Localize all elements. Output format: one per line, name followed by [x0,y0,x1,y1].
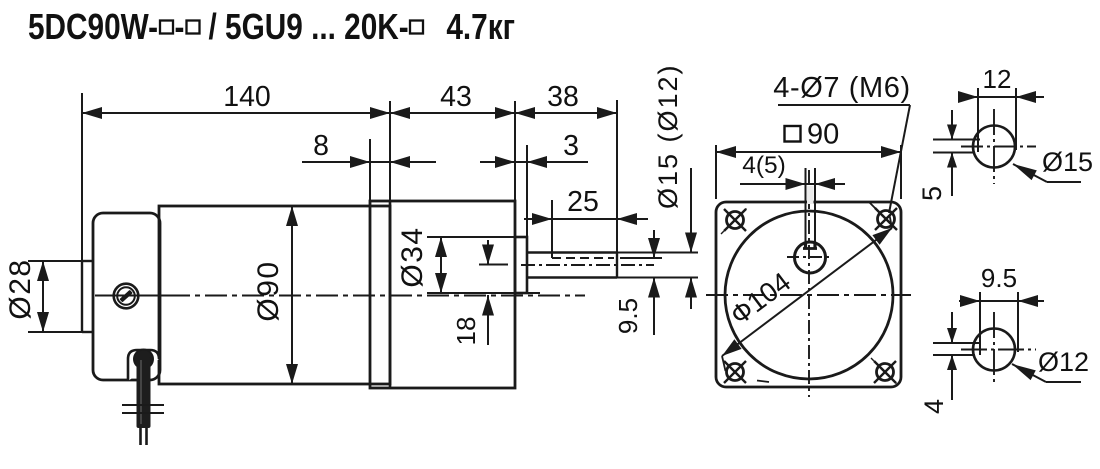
detail2 key width lines [979,292,981,355]
svg-text:12: 12 [983,64,1012,94]
gearbox housing [370,201,515,388]
output shaft [527,251,617,253]
keyway hidden line [552,257,614,259]
leader 4-dia7 [778,104,910,106]
dimension dia90 [291,206,293,384]
extension line x515 [514,101,516,202]
corner hole top-right [878,211,895,228]
dimension 9.5 keyflat [620,257,662,259]
detail1 dimension 5 [951,110,953,140]
dimension dia28 [28,260,93,262]
dimension 3 [480,161,588,163]
extension line x370 for 8 [369,139,371,201]
shaft bore centerline [787,256,832,258]
motor centerline [95,295,168,297]
svg-text:Ø28: Ø28 [4,258,37,319]
svg-text:5: 5 [917,186,947,201]
cable gland [128,350,159,381]
detail1 horizontal centerline [961,146,1036,148]
svg-text:43: 43 [440,81,472,113]
dimension square 90 [715,145,717,199]
detail1 flat lines [933,139,980,141]
cable entry boss [134,350,153,369]
title text 5DC90W [28,7,409,48]
cable wire prongs [139,428,142,445]
detail2 shaft circle dia12 [973,329,1015,371]
dimension 8 [302,161,436,163]
extension line x617 [616,100,618,252]
corner hole bottom-left [727,364,744,381]
gearbox circle [725,211,893,379]
front boss [515,237,527,293]
detail2 vertical centerline [993,312,995,385]
output shaft bore [795,242,826,273]
dimension dia34 [427,236,516,238]
detail1 shaft circle dia15 [973,126,1015,168]
output shaft centerline [521,264,654,266]
extension line x552 for 25 [551,200,553,258]
dimension 4(5) keyway [740,183,845,185]
dimension 25 [524,218,648,220]
detail2 flat lines [933,342,980,344]
svg-text:3: 3 [563,130,579,162]
extension line x527 for 3 [526,145,528,237]
extension line x390 [389,101,391,200]
motor gearbox joint line [389,201,392,388]
cable break lines [122,404,164,406]
rear shaft stub [81,261,83,332]
keyway slot lines [805,168,807,249]
svg-text:25: 25 [567,186,599,218]
front view vertical centerline [808,170,810,397]
rear end cap [93,213,160,380]
svg-text:Ø15 (Ø12): Ø15 (Ø12) [653,63,683,209]
detail2 label dia12 [1046,381,1081,383]
svg-text:5DC90W-: 5DC90W- [28,7,158,48]
detail2 dimension 4 [951,312,953,343]
detail2 dimension 9.5 [959,300,1044,302]
detail1 dimension 12 [958,96,1044,98]
detail1 key width lines [977,88,979,152]
dimension dia104 diagonal [722,228,892,356]
motor body [159,206,390,384]
svg-text:18: 18 [451,317,481,346]
svg-text:-: - [175,7,185,48]
dimension dia15 dia12 shaft [613,252,698,254]
svg-text:4: 4 [919,399,949,414]
detail1 vertical centerline [993,109,995,184]
svg-text:4-Ø7 (M6): 4-Ø7 (M6) [773,72,911,104]
svg-text:4.7кг: 4.7кг [446,7,515,48]
svg-text:9.5: 9.5 [613,298,643,334]
extension line left x82 [81,93,83,261]
svg-text:/ 5GU9 ... 20K-: / 5GU9 ... 20K- [208,7,408,48]
cable [137,357,151,428]
flange square [716,202,901,387]
svg-text:8: 8 [313,130,329,162]
detail1 label dia15 [1047,181,1081,183]
svg-text:140: 140 [223,81,271,113]
svg-text:4(5): 4(5) [742,152,786,179]
front view horizontal centerline [706,294,911,296]
dimension line 140-43-38 [82,112,617,114]
svg-text:Ø15: Ø15 [1042,147,1093,177]
corner hole bottom-right [877,364,894,381]
svg-text:90: 90 [807,119,839,151]
svg-text:Ø12: Ø12 [1038,347,1089,377]
svg-text:38: 38 [547,81,579,113]
corner hole top-left [727,212,744,229]
svg-text:Ø90: Ø90 [252,260,285,321]
terminal screw [114,284,139,309]
detail2 horizontal centerline [961,349,1036,351]
svg-text:Ø34: Ø34 [396,226,429,287]
keyway slot shading [807,186,814,204]
svg-text:9.5: 9.5 [981,263,1017,293]
dimension 18 offset [479,264,508,266]
